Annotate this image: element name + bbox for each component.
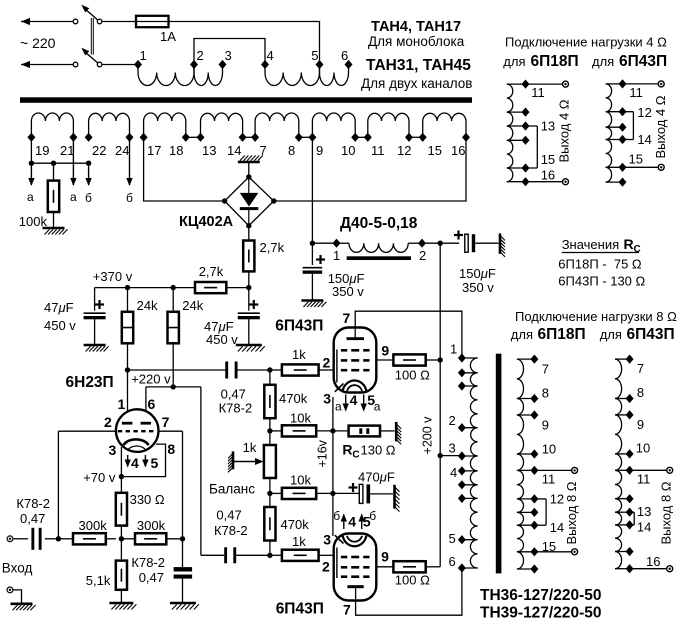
svg-text:8: 8: [167, 441, 175, 457]
transformer T1 primary winding 1-3: [138, 65, 223, 86]
label C8 470uF: [358, 470, 395, 485]
node secondary tap: [351, 133, 359, 142]
terminal 8ohm d: [667, 566, 673, 572]
svg-text:6Н23П: 6Н23П: [66, 374, 114, 391]
label 6N23P: [66, 374, 114, 391]
node 4ohm tap r: [619, 178, 627, 187]
T1 secondary winding 15-16: [423, 113, 466, 137]
node T2 sec tap: [530, 394, 538, 403]
node T2 tap: [458, 423, 466, 432]
wire mains line L2: [21, 61, 76, 68]
bridge KC402A diode: [240, 177, 258, 226]
ground under C3: [84, 345, 109, 352]
svg-text:6: 6: [148, 396, 156, 412]
svg-text:для: для: [592, 54, 614, 69]
svg-text:1k: 1k: [292, 534, 306, 549]
tube V1 anode 1: [122, 422, 132, 425]
svg-text:ТАН31, ТАН45: ТАН31, ТАН45: [366, 57, 471, 74]
resistor R8 5.1k: [116, 539, 127, 590]
svg-text:10: 10: [542, 442, 556, 457]
tube V3 anode wire to tap6: [356, 568, 462, 615]
svg-text:+70 v: +70 v: [83, 470, 116, 485]
pin label 5: [151, 455, 159, 471]
wire pin6 up: [145, 387, 147, 422]
label R8 5.1k: [86, 573, 111, 588]
label KC402A: [179, 214, 234, 230]
label b V3 right: [369, 509, 376, 523]
wire switch to tap1: [102, 64, 138, 66]
T1 secondary winding 19-21: [31, 113, 73, 137]
wire choke node down: [311, 243, 313, 265]
node tap3: [219, 60, 227, 69]
ground above bridge: [238, 156, 263, 163]
label TN39: [480, 605, 602, 622]
winding 4ohm 6P18P: [507, 84, 562, 182]
node cath a: [330, 428, 335, 433]
svg-text:1: 1: [140, 48, 147, 63]
svg-text:2: 2: [197, 48, 204, 63]
label C7 K78-2 0.47: [131, 555, 165, 585]
node T2 sec tap: [530, 494, 538, 503]
wire R17 to rail: [426, 566, 441, 568]
svg-text:24k: 24k: [137, 298, 158, 313]
svg-text:7: 7: [637, 361, 644, 376]
pin label 9 V2: [381, 343, 389, 359]
wire pin1 up: [127, 370, 129, 422]
pin label 4: [131, 455, 139, 471]
node tap2: [190, 60, 198, 69]
label Rc: [342, 442, 395, 461]
wire R15 to rail: [426, 359, 441, 361]
ground under 100k: [43, 228, 68, 235]
svg-text:Баланс: Баланс: [209, 482, 255, 497]
capacitor C3 47uF: [84, 313, 106, 319]
label vyhod 8ohm right: [659, 481, 674, 544]
label +70v: [83, 470, 116, 485]
pin label 9 V3: [381, 549, 389, 565]
node secondary tap: [182, 133, 190, 142]
wire R11 to node: [269, 541, 271, 556]
pin label 5 V2: [367, 392, 375, 408]
pin labels 4ohm left: [531, 85, 555, 183]
input terminal 2: [7, 587, 13, 593]
node 4ohm tap r: [619, 135, 627, 144]
resistor R1 2.7k vertical: [243, 226, 254, 288]
node T2 tap: [458, 480, 466, 489]
svg-text:47μF: 47μF: [44, 300, 74, 315]
svg-text:4: 4: [450, 465, 457, 480]
node T2 sec tap: [530, 466, 538, 475]
svg-text:24k: 24k: [182, 298, 203, 313]
svg-text:100 Ω: 100 Ω: [395, 573, 430, 588]
wire rail to C4: [248, 288, 250, 311]
label dlya monobloka: [368, 34, 465, 49]
pin label 8: [167, 441, 175, 457]
pin label 5 V3: [363, 514, 371, 530]
node 4ohm tap r: [619, 123, 627, 132]
svg-text:КЦ402А: КЦ402А: [179, 214, 234, 230]
potentiometer R10 wiper: [233, 458, 263, 465]
node 8ohm tap r: [626, 547, 634, 556]
wire node to R7: [121, 538, 135, 540]
terminal 4ohm a: [563, 81, 569, 87]
svg-text:13: 13: [637, 504, 651, 519]
resistor 100k: [48, 181, 59, 212]
svg-text:18: 18: [169, 143, 183, 158]
tube V3 6P43P envelope: [334, 534, 377, 601]
svg-text:Выход 4 Ω: Выход 4 Ω: [556, 99, 571, 162]
wire R8 to gnd: [120, 590, 122, 603]
label TAN31 TAN45: [366, 57, 471, 74]
tube V1 cathode: [124, 439, 149, 450]
node cath b: [330, 491, 335, 496]
svg-text:7: 7: [162, 414, 170, 430]
node T2 sec tap: [530, 521, 538, 530]
wire cap to wall: [475, 242, 498, 244]
capacitor C2 150uF plus: [454, 231, 463, 240]
svg-text:13: 13: [541, 119, 555, 134]
capacitor C2 150uF: [465, 234, 475, 252]
label +220v: [131, 372, 171, 387]
label podkl 4: [505, 35, 667, 50]
label b2: [126, 191, 133, 205]
svg-text:Для моноблока: Для моноблока: [368, 34, 465, 49]
wire switch to fuse: [102, 21, 136, 23]
tube V2 anode: [347, 337, 365, 340]
svg-text:16: 16: [541, 168, 555, 183]
wire arrow 22b: [85, 163, 91, 186]
terminal 8ohm b: [572, 549, 578, 555]
node T2 sec tap: [530, 449, 538, 458]
svg-text:17: 17: [147, 143, 161, 158]
node secondary tap: [126, 133, 134, 142]
node secondary tap: [140, 133, 148, 142]
node pin7 col: [180, 536, 185, 541]
pin labels T2 primary: [449, 342, 458, 570]
label vyhod 8ohm left: [564, 481, 579, 544]
node tap6: [345, 60, 353, 69]
label 100k: [19, 214, 48, 229]
node B+ main: [438, 241, 443, 246]
label TAN4 TAN17: [371, 19, 461, 35]
node tap5: [316, 60, 324, 69]
svg-text:ТАН4, ТАН17: ТАН4, ТАН17: [371, 19, 461, 35]
ground under C7: [170, 603, 199, 610]
svg-text:19: 19: [35, 143, 49, 158]
label dlya dvuh kanalov: [361, 76, 472, 91]
label vyhod 4ohm right: [653, 95, 668, 158]
svg-text:К78-2: К78-2: [16, 496, 50, 511]
wire arrow 21a: [70, 137, 76, 186]
tube V1 anode 2: [141, 422, 151, 425]
svg-text:450 v: 450 v: [206, 332, 238, 347]
node 370 a: [125, 285, 130, 290]
label C1 150uF: [328, 271, 365, 299]
pin labels 8ohm left: [542, 362, 564, 555]
label Rc 6P43P: [558, 274, 645, 289]
tube V3 grid rail: [336, 548, 338, 579]
svg-text:для: для: [511, 327, 533, 342]
node secondary tap: [462, 133, 470, 142]
label +370v: [93, 269, 133, 284]
svg-text:11: 11: [637, 472, 651, 487]
choke L1 core: [347, 256, 411, 260]
svg-text:14: 14: [227, 143, 241, 158]
label 6P43P bottom: [276, 601, 324, 618]
resistor R12 10k upper: [270, 425, 333, 436]
svg-text:Подключение нагрузки 8 Ω: Подключение нагрузки 8 Ω: [515, 309, 677, 324]
pin label 3 V3: [323, 532, 331, 548]
node T2 sec tap: [530, 410, 538, 419]
node 370 b: [171, 285, 176, 290]
svg-text:470k: 470k: [281, 517, 310, 532]
label znacheniya Rc: [562, 236, 641, 255]
svg-text:4: 4: [267, 48, 274, 63]
wire input: [13, 538, 28, 540]
wire arrow 24b: [126, 137, 132, 186]
node rail tap3: [438, 453, 443, 458]
node 8ohm tap r: [626, 520, 634, 529]
resistor R6 300k: [73, 533, 106, 544]
svg-text:0,47: 0,47: [221, 387, 246, 402]
svg-text:8: 8: [288, 143, 295, 158]
potentiometer R10 1k: [264, 431, 276, 494]
node div a: [267, 428, 272, 433]
label R17 100: [395, 573, 430, 588]
node bridge bottom: [246, 223, 251, 228]
tube V1 heater arrows: [125, 455, 149, 468]
tube V3 cathode: [335, 535, 367, 546]
svg-text:3: 3: [109, 442, 117, 458]
svg-text:330 Ω: 330 Ω: [130, 492, 165, 507]
node 4ohm tap: [522, 163, 530, 172]
svg-text:12: 12: [397, 143, 411, 158]
wire C4 to gnd: [248, 317, 250, 344]
svg-text:+16v: +16v: [316, 439, 330, 467]
fuse F1: [136, 16, 169, 27]
svg-text:а: а: [335, 400, 342, 414]
node 4ohm tap: [522, 136, 530, 145]
node 8ohm tap r: [626, 355, 634, 364]
node cathode junction: [119, 536, 124, 541]
node T2 tap: [458, 494, 466, 503]
wire gnd to bridge top: [248, 162, 250, 177]
tube V2 heater arrows: [343, 395, 367, 412]
T1 secondary winding 13-14: [201, 113, 243, 137]
capacitor C1 150uF plus: [316, 255, 325, 264]
pin label 7 V3: [343, 602, 351, 618]
wire link 18-13: [186, 136, 201, 138]
svg-text:11: 11: [371, 143, 385, 158]
capacitor C6 input 0.47: [31, 528, 41, 550]
svg-text:для: для: [600, 327, 622, 342]
resistor R5 330: [116, 477, 127, 526]
svg-text:R: R: [624, 236, 634, 252]
wire cathode col: [332, 397, 334, 536]
svg-text:1: 1: [333, 248, 340, 263]
switch S1 blade lower: [81, 48, 98, 63]
svg-text:б: б: [85, 191, 92, 205]
wire C5 to node: [236, 369, 270, 371]
pin label 3: [109, 442, 117, 458]
switch S1 gang link: [91, 18, 93, 55]
winding 4ohm 6P43P: [606, 84, 658, 182]
capacitor C7 bypass: [174, 567, 193, 579]
resistor R17 100: [393, 561, 425, 572]
node bridge top: [246, 174, 251, 179]
label R12 10k: [290, 411, 311, 426]
node secondary tap: [27, 133, 35, 142]
svg-text:11: 11: [542, 472, 556, 487]
wire R6 to node: [106, 538, 116, 540]
node div b: [267, 491, 272, 496]
svg-text:9: 9: [381, 549, 389, 565]
ground under C1: [301, 301, 326, 308]
node 8ohm tap r: [626, 494, 634, 503]
svg-text:6П43П: 6П43П: [276, 601, 324, 618]
node bus 22: [86, 161, 91, 166]
switch S1 contact a: [73, 19, 78, 24]
svg-text:0,47: 0,47: [139, 570, 164, 585]
tube V2 6P43P envelope: [334, 328, 377, 393]
wire grid2 right: [158, 430, 182, 432]
label podkl 8: [515, 309, 677, 324]
svg-text:0,47: 0,47: [20, 511, 45, 526]
label 6P43P top: [275, 318, 323, 335]
label a V2 right: [374, 400, 381, 414]
T1 secondary winding 17-18: [144, 113, 186, 137]
label vyhod 4ohm left: [556, 99, 571, 162]
pin label 1: [118, 396, 126, 412]
node T2 tap: [458, 451, 466, 460]
wire arrow 19a: [28, 163, 34, 186]
tube V1 grids: [118, 430, 155, 432]
label ~220: [20, 35, 56, 51]
svg-text:Выход 8 Ω: Выход 8 Ω: [564, 481, 579, 544]
node secondary tap: [405, 133, 413, 142]
wire pin9 V2: [376, 359, 393, 361]
resistor R16 1k: [270, 364, 334, 375]
svg-text:13: 13: [202, 143, 216, 158]
capacitor C8 470uF plus: [349, 483, 358, 492]
svg-text:21: 21: [60, 143, 74, 158]
svg-text:15: 15: [542, 539, 556, 554]
svg-text:+370 v: +370 v: [93, 269, 133, 284]
svg-text:8: 8: [542, 386, 549, 401]
capacitor C4 47uF plus: [249, 300, 258, 309]
chassis wall right of C2: [500, 233, 505, 256]
node secondary tap: [85, 133, 93, 142]
label C5 0.47 K78-2: [219, 387, 253, 416]
svg-text:10k: 10k: [290, 473, 311, 488]
wire 200 rail: [439, 243, 441, 567]
svg-text:300k: 300k: [137, 518, 166, 533]
wire node to C8: [333, 492, 359, 494]
node bus 100k: [51, 161, 56, 166]
node grid in: [56, 536, 61, 541]
svg-text:14: 14: [550, 520, 564, 535]
resistor R11 470k: [264, 493, 275, 540]
svg-text:К78-2: К78-2: [131, 555, 165, 570]
label R1 2.7k: [260, 240, 285, 255]
svg-text:Для двух каналов: Для двух каналов: [361, 76, 472, 91]
node T2 tap: [458, 368, 466, 377]
ground under input2: [11, 604, 36, 611]
node 8ohm tap r: [626, 508, 634, 517]
svg-text:3: 3: [323, 391, 331, 407]
tube V2 anode wire to tap1: [355, 311, 462, 358]
node choke 1: [333, 239, 341, 248]
svg-text:6: 6: [449, 554, 456, 569]
label R5 330: [130, 492, 165, 507]
wire choke to cap: [422, 242, 459, 244]
svg-text:5,1k: 5,1k: [86, 573, 111, 588]
svg-text:2: 2: [104, 414, 112, 430]
choke L1 winding: [337, 243, 423, 252]
node T2 tap: [458, 563, 466, 572]
resistor R2 2.7k horizontal: [195, 282, 226, 293]
resistor R15 100: [393, 354, 425, 365]
label R2 2.7k: [199, 264, 224, 279]
wire splitter out2 down: [200, 387, 202, 555]
node T2 tap: [458, 466, 466, 475]
transformer T1 primary winding 4-6: [265, 65, 349, 86]
capacitor C8 470uF: [359, 484, 370, 503]
svg-text:22: 22: [92, 143, 106, 158]
svg-text:15: 15: [629, 152, 643, 167]
node anode2: [171, 384, 176, 389]
label R18 1k: [292, 534, 306, 549]
pin label 7: [162, 414, 170, 430]
svg-text:4: 4: [131, 455, 139, 471]
svg-text:7: 7: [260, 143, 267, 158]
svg-text:0,47: 0,47: [216, 508, 241, 523]
pin labels primary: [140, 48, 349, 63]
svg-text:6П43П: 6П43П: [275, 318, 323, 335]
svg-text:б: б: [369, 509, 376, 523]
node T2 tap: [458, 535, 466, 544]
node T2 tap: [458, 381, 466, 390]
ground under C4: [236, 345, 265, 352]
node +70v: [119, 474, 124, 479]
node choke in: [310, 241, 315, 246]
ground under R8: [109, 603, 136, 610]
wire 330 to node: [120, 526, 122, 539]
resistor R14 Rc: [333, 426, 395, 437]
wire link 14-7: [243, 136, 256, 138]
wire C1 to gnd: [311, 272, 313, 300]
node secondary tap: [197, 133, 205, 142]
switch S1 contact d: [97, 62, 102, 67]
wire 370 rail right: [226, 287, 249, 289]
svg-text:3: 3: [225, 48, 232, 63]
switch S1 contact b: [97, 19, 102, 24]
svg-text:~ 220: ~ 220: [20, 35, 56, 51]
pin label 4 V3: [348, 514, 356, 530]
chassis wall pot: [228, 451, 233, 472]
svg-text:10: 10: [341, 143, 355, 158]
svg-text:100 Ω: 100 Ω: [395, 368, 430, 383]
svg-text:11: 11: [531, 85, 545, 100]
label +16v: [316, 439, 330, 467]
winding 8ohm 6P43P: [615, 359, 666, 569]
svg-text:5: 5: [311, 48, 318, 63]
wire input2 to gnd: [13, 590, 21, 603]
pin label 2 V3: [322, 559, 330, 575]
node div c: [267, 553, 272, 558]
node 4ohm tap: [522, 80, 530, 89]
label R13 10k: [290, 473, 311, 488]
